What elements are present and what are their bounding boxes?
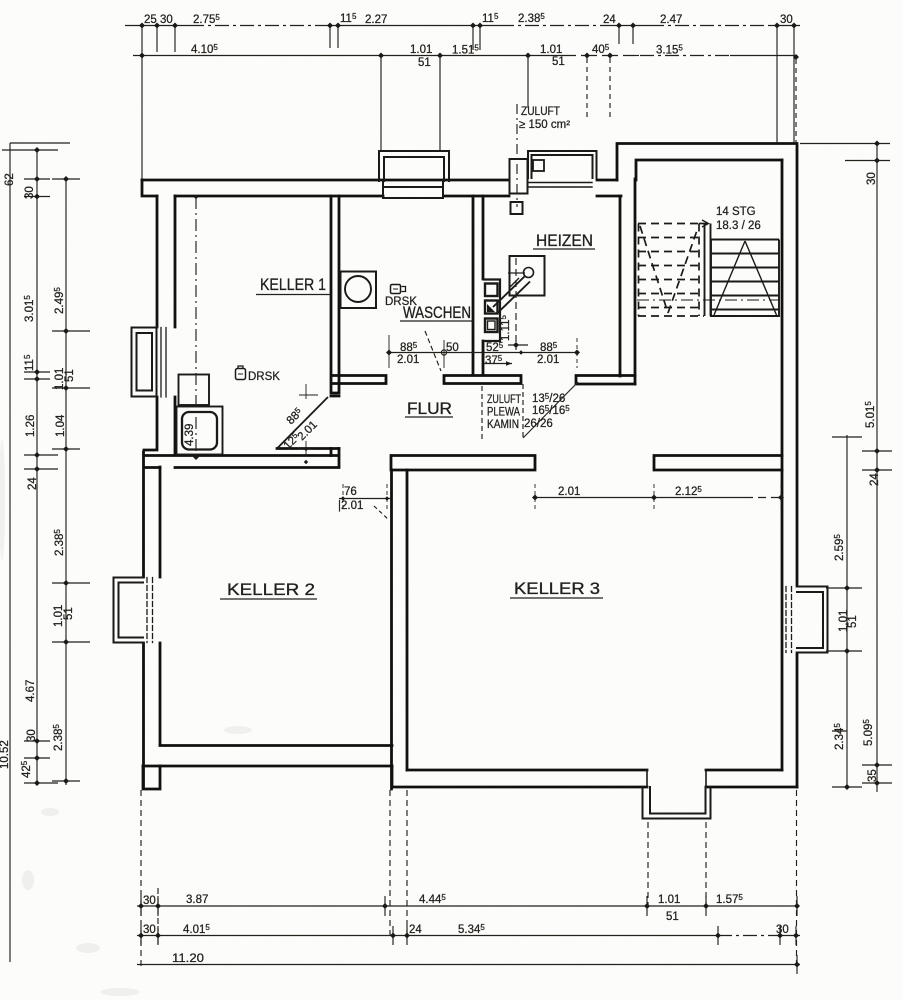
window W2 inner frame: [137, 333, 153, 391]
svg-text:DRSK: DRSK: [385, 296, 417, 308]
svg-text:11.20: 11.20: [172, 953, 204, 965]
window W2 glass lines in wall: [161, 328, 166, 398]
dim top refs: [141, 28, 143, 179]
stair solid V direction: [714, 241, 777, 315]
wire top wall outer edge: [142, 179, 617, 182]
node ticks left inner: [63, 176, 69, 182]
svg-text:ZULUFT: ZULUFT: [521, 106, 560, 118]
stair right flight frame: [711, 240, 779, 317]
boiler square: [510, 256, 545, 296]
wall waschen bottom: [332, 376, 386, 384]
svg-text:30: 30: [160, 14, 173, 26]
window W2 keller1 left outer frame: [132, 328, 157, 397]
stair section dash-dot line: [637, 299, 779, 301]
wall left inner upper: [174, 196, 177, 455]
wall stair inner right: [781, 160, 784, 770]
waschen door swing dashed: [425, 331, 441, 371]
svg-text:165/165: 165/165: [532, 404, 570, 417]
node tick bottom C: [794, 962, 800, 968]
window W3 keller2 left outer frame: [114, 578, 144, 643]
window W1 sill boxes: [383, 181, 443, 198]
wall waschen/heizen: [473, 196, 483, 375]
dim left outer line: [36, 150, 38, 785]
wall divider keller2/keller3: [392, 470, 408, 789]
wall stair block inner top: [636, 160, 782, 180]
window W3 inner frame: [119, 583, 144, 638]
keller2 door dim: [339, 498, 391, 500]
dim bottom refs: [141, 790, 797, 968]
node ticks right inner: [844, 585, 850, 591]
dim bottom line A: [137, 905, 797, 907]
stair middle divider: [705, 224, 711, 317]
svg-text:30: 30: [26, 729, 38, 742]
dim top line 1: [125, 25, 190, 27]
wall left outer upper: [144, 196, 158, 788]
svg-text:2.27: 2.27: [365, 14, 387, 26]
svg-text:1.01: 1.01: [540, 44, 562, 56]
node ticks top line 2: [139, 53, 145, 59]
wall keller3 top left segment: [391, 456, 535, 471]
dim right inner tick bars: [826, 437, 862, 787]
wall left inner lower: [159, 467, 162, 745]
node ticks flur dim: [386, 350, 392, 356]
zuluft dash-dot line: [516, 104, 518, 207]
svg-text:51: 51: [847, 615, 859, 628]
wall heizen/stair divider: [620, 179, 635, 384]
svg-text:2.47: 2.47: [660, 14, 682, 26]
dim right outer line: [876, 143, 878, 792]
plewa table dashes: [482, 384, 523, 440]
svg-text:4.39: 4.39: [184, 424, 196, 446]
wall keller2 top jamb: [331, 449, 339, 456]
svg-text:35: 35: [867, 769, 879, 782]
wall divider keller1/waschen: [331, 196, 339, 396]
chimney stack outline in heizen: [483, 280, 500, 342]
svg-text:51: 51: [418, 57, 431, 69]
wire top wall inner edge: [175, 195, 621, 198]
svg-text:DRSK: DRSK: [248, 371, 280, 383]
dim top line 2: [133, 55, 560, 57]
svg-text:1.01: 1.01: [658, 894, 680, 906]
svg-text:51: 51: [63, 607, 75, 620]
dim right inner line: [846, 435, 848, 787]
svg-text:4.67: 4.67: [25, 680, 37, 702]
window W4 inner frame: [797, 592, 823, 648]
svg-text:24: 24: [603, 14, 616, 26]
svg-text:14 STG: 14 STG: [716, 206, 756, 218]
svg-text:30: 30: [143, 924, 156, 936]
bottom tick bars: [141, 896, 797, 916]
arrowhead 37.5 dim: [506, 361, 512, 365]
svg-text:24: 24: [409, 924, 422, 936]
window W1 waschen top outer frame: [379, 151, 449, 181]
stairs: [637, 220, 779, 316]
node ticks bottom B: [138, 933, 144, 939]
chimney flue square 2 black triangle: [487, 304, 495, 312]
node ticks keller3 dim: [532, 495, 538, 501]
svg-text:30: 30: [24, 186, 36, 199]
stair left flight side dashed: [639, 224, 700, 317]
faint scan smudges: [0, 440, 252, 996]
svg-text:51: 51: [552, 56, 565, 68]
stair left flight dashed treads: [638, 224, 704, 317]
chimney flue square 2 outer: [485, 301, 498, 314]
washing machine box: [341, 272, 377, 309]
dim right outer tick bars: [862, 451, 892, 783]
washing machine drum circle: [345, 276, 371, 302]
svg-text:76: 76: [344, 486, 357, 498]
walls: [142, 144, 797, 790]
wall keller2 bottom: [143, 746, 392, 767]
window W4 glass lines: [786, 587, 792, 653]
window W1 inner frame: [384, 157, 444, 181]
wall step keller2/keller3 bottom: [391, 766, 394, 787]
svg-text:2.01: 2.01: [397, 354, 419, 366]
svg-text:PLEWA: PLEWA: [487, 407, 520, 419]
svg-text:50: 50: [446, 342, 459, 354]
icon drsk 2: [391, 285, 406, 294]
leader from kamin table to wall corner: [523, 382, 578, 438]
stair arrow at top: [699, 223, 707, 225]
svg-text:KELLER 1: KELLER 1: [260, 276, 326, 294]
svg-text:ZULUFT: ZULUFT: [487, 394, 521, 406]
svg-text:1.26: 1.26: [25, 415, 37, 437]
window W5 keller3 bottom outer frame: [643, 787, 711, 819]
node tick sink dim: [193, 454, 199, 460]
window W5 inner frame: [650, 787, 706, 814]
dim left inner tick bars: [52, 179, 90, 781]
node ticks bottom A: [138, 903, 144, 909]
window W5 jambs in wall: [647, 770, 706, 787]
keller3 top dim line: [535, 497, 745, 499]
wall keller3 top right segment: [654, 456, 782, 471]
node ticks keller2 door dim: [341, 496, 345, 500]
boiler pipe to chimney: [493, 277, 530, 314]
svg-text:30: 30: [143, 895, 156, 907]
svg-text:18.3 / 26: 18.3 / 26: [716, 220, 761, 232]
wall heizen bottom: [576, 376, 635, 385]
small square below shaft: [511, 202, 523, 214]
svg-text:10.52: 10.52: [0, 740, 11, 769]
svg-text:KELLER 2: KELLER 2: [227, 581, 315, 599]
svg-text:HEIZEN: HEIZEN: [536, 232, 593, 250]
node ticks top line 1: [139, 23, 145, 29]
window W4 keller3 right outer frame: [797, 587, 828, 653]
svg-text:3.87: 3.87: [186, 894, 208, 906]
shaft left of heizen window: [510, 159, 528, 194]
diagonal door tick top: [299, 384, 318, 399]
svg-text:26/26: 26/26: [524, 418, 553, 430]
flur dim line waschen door: [389, 352, 577, 354]
svg-text:≥ 150 cm²: ≥ 150 cm²: [519, 119, 570, 131]
icon drsk 1: [236, 366, 246, 380]
wire diagonal cut line: [277, 447, 331, 450]
wall keller3 bottom: [392, 770, 797, 787]
dim left outer tick bars: [24, 179, 58, 783]
svg-text:24: 24: [869, 473, 881, 486]
washbasin square above sink: [179, 375, 210, 406]
node ticks diagonal door: [304, 447, 308, 451]
svg-text:30: 30: [780, 14, 793, 26]
svg-text:1.01: 1.01: [410, 44, 432, 56]
window W6 inner small rect: [533, 160, 544, 171]
window W6 heizen top frame: [528, 151, 597, 178]
svg-text:25: 25: [144, 14, 157, 26]
wall keller2 top: [144, 449, 339, 468]
boiler circle: [524, 268, 534, 278]
keller2 door swing dashed: [374, 506, 389, 520]
wire top-left pilaster: [142, 180, 157, 196]
diagonal door tick bottom: [299, 441, 313, 456]
wall waschen bottom right segment: [444, 376, 521, 384]
dim 37.5 arrow line: [484, 363, 512, 365]
svg-text:KELLER 3: KELLER 3: [514, 580, 600, 598]
dim bottom line B: [137, 935, 718, 937]
dim left inner line: [65, 179, 67, 785]
stair dashed V direction: [640, 226, 698, 313]
window W6 sill lines under: [528, 183, 592, 188]
stair bottom dashed: [638, 315, 704, 317]
window w4 extension lines: [828, 588, 847, 651]
door diagonal keller1: [277, 397, 328, 449]
svg-text:|2.01: |2.01: [338, 500, 363, 512]
sink 4.39 dash-dot line: [195, 197, 197, 457]
sink inner rounded: [182, 412, 217, 450]
dim left far total line: [10, 143, 70, 962]
svg-text:51: 51: [64, 369, 76, 382]
fixtures: [177, 256, 545, 455]
svg-text:51: 51: [666, 911, 679, 923]
heizen 1.11 dim: [515, 258, 517, 350]
svg-text:30: 30: [866, 172, 878, 185]
wall stair block outer: [617, 144, 797, 788]
windows group: [114, 151, 828, 819]
svg-text:2.01: 2.01: [558, 486, 580, 498]
svg-text:1.04: 1.04: [55, 414, 67, 437]
wall keller2 bottom-left foot: [143, 766, 160, 789]
pipe tick: [509, 278, 519, 288]
svg-text:62: 62: [4, 173, 16, 186]
svg-text:24: 24: [27, 477, 39, 490]
node tick heizen dim: [513, 342, 519, 348]
svg-text:30: 30: [776, 924, 789, 936]
sink outer box: [177, 407, 223, 455]
svg-text:2.01: 2.01: [537, 354, 559, 366]
window W3 glass lines: [147, 578, 153, 643]
svg-text:KAMIN: KAMIN: [487, 419, 519, 431]
chimney flue square 1: [485, 284, 498, 297]
svg-text:FLUR: FLUR: [407, 400, 452, 418]
dim bottom line C: [137, 964, 800, 966]
node ticks left outer: [34, 147, 40, 153]
chimney flue square 3: [485, 319, 498, 333]
stair right flight treads: [711, 240, 779, 310]
node ticks right outer: [874, 141, 880, 147]
